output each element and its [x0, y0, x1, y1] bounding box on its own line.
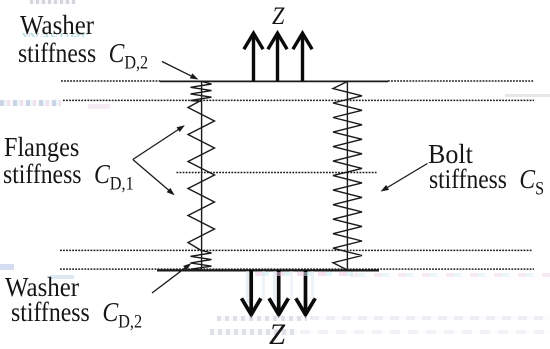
load arrow up 1 [252, 34, 255, 81]
artifact: faint line right of bottom area [350, 273, 550, 277]
label: washer stiffness CD,2 (top) [20, 12, 94, 39]
spring: washer stiffness bottom CD,2 [191, 250, 212, 270]
wire: top boundary dashed right segment [388, 80, 534, 82]
load arrow down 1 [249, 270, 253, 313]
artifact: ghost Washer echo [20, 33, 92, 37]
load arrow down 2 [277, 270, 281, 313]
artifact: pink cyan dashes under bottom boundary [255, 272, 355, 276]
wire: lower inner dashed line [60, 249, 532, 251]
node: bolt axis vertical line [346, 81, 348, 271]
artifact: right edge gray streak [505, 94, 550, 97]
label: flanges stiffness CD,1 [4, 134, 79, 161]
artifact: left edge gray streaks [0, 100, 61, 107]
label: bolt stiffness CS [428, 141, 473, 168]
wire: bottom boundary dashed full line [60, 268, 534, 270]
load arrow up 3 [301, 34, 304, 81]
callout arrow: top washer label to spring [162, 62, 193, 77]
callout arrow: bottom washer label to spring [152, 267, 187, 293]
label: washer stiffness CD,2 (bottom) [5, 274, 79, 301]
callout arrow: bolt label to spring [386, 164, 428, 189]
load arrow down 3 [304, 270, 308, 313]
callout arrow: flanges label lower prong [133, 160, 170, 192]
wire: middle dashed line [177, 172, 378, 174]
artifact: jpeg noise top edge [30, 0, 76, 4]
artifact: bottom left blue dots [0, 264, 14, 270]
wire: top boundary dashed left segment [61, 80, 160, 82]
wire: upper inner dashed line [63, 99, 534, 101]
node: left column axis vertical line [201, 81, 203, 271]
wire: top boundary solid line [160, 80, 388, 82]
callout arrow: flanges label upper prong [133, 129, 180, 160]
spring: bolt stiffness CS [333, 82, 362, 271]
artifact: band under down arrows [217, 316, 307, 321]
label: Z axis bottom [269, 321, 285, 349]
label: Z axis top [272, 4, 284, 29]
load arrow up 2 [276, 34, 279, 81]
wire: bottom boundary thick solid line [157, 269, 379, 271]
artifact: band lower left of Z bottom [210, 329, 297, 335]
spring: washer stiffness top CD,2 [191, 82, 212, 102]
spring: flange stiffness CD,1 [188, 100, 215, 250]
